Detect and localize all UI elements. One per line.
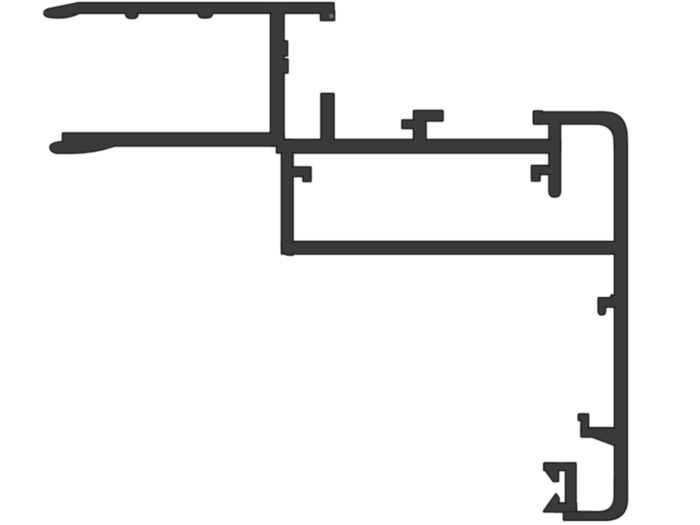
gray pocket in end clip: [330, 14, 334, 17]
